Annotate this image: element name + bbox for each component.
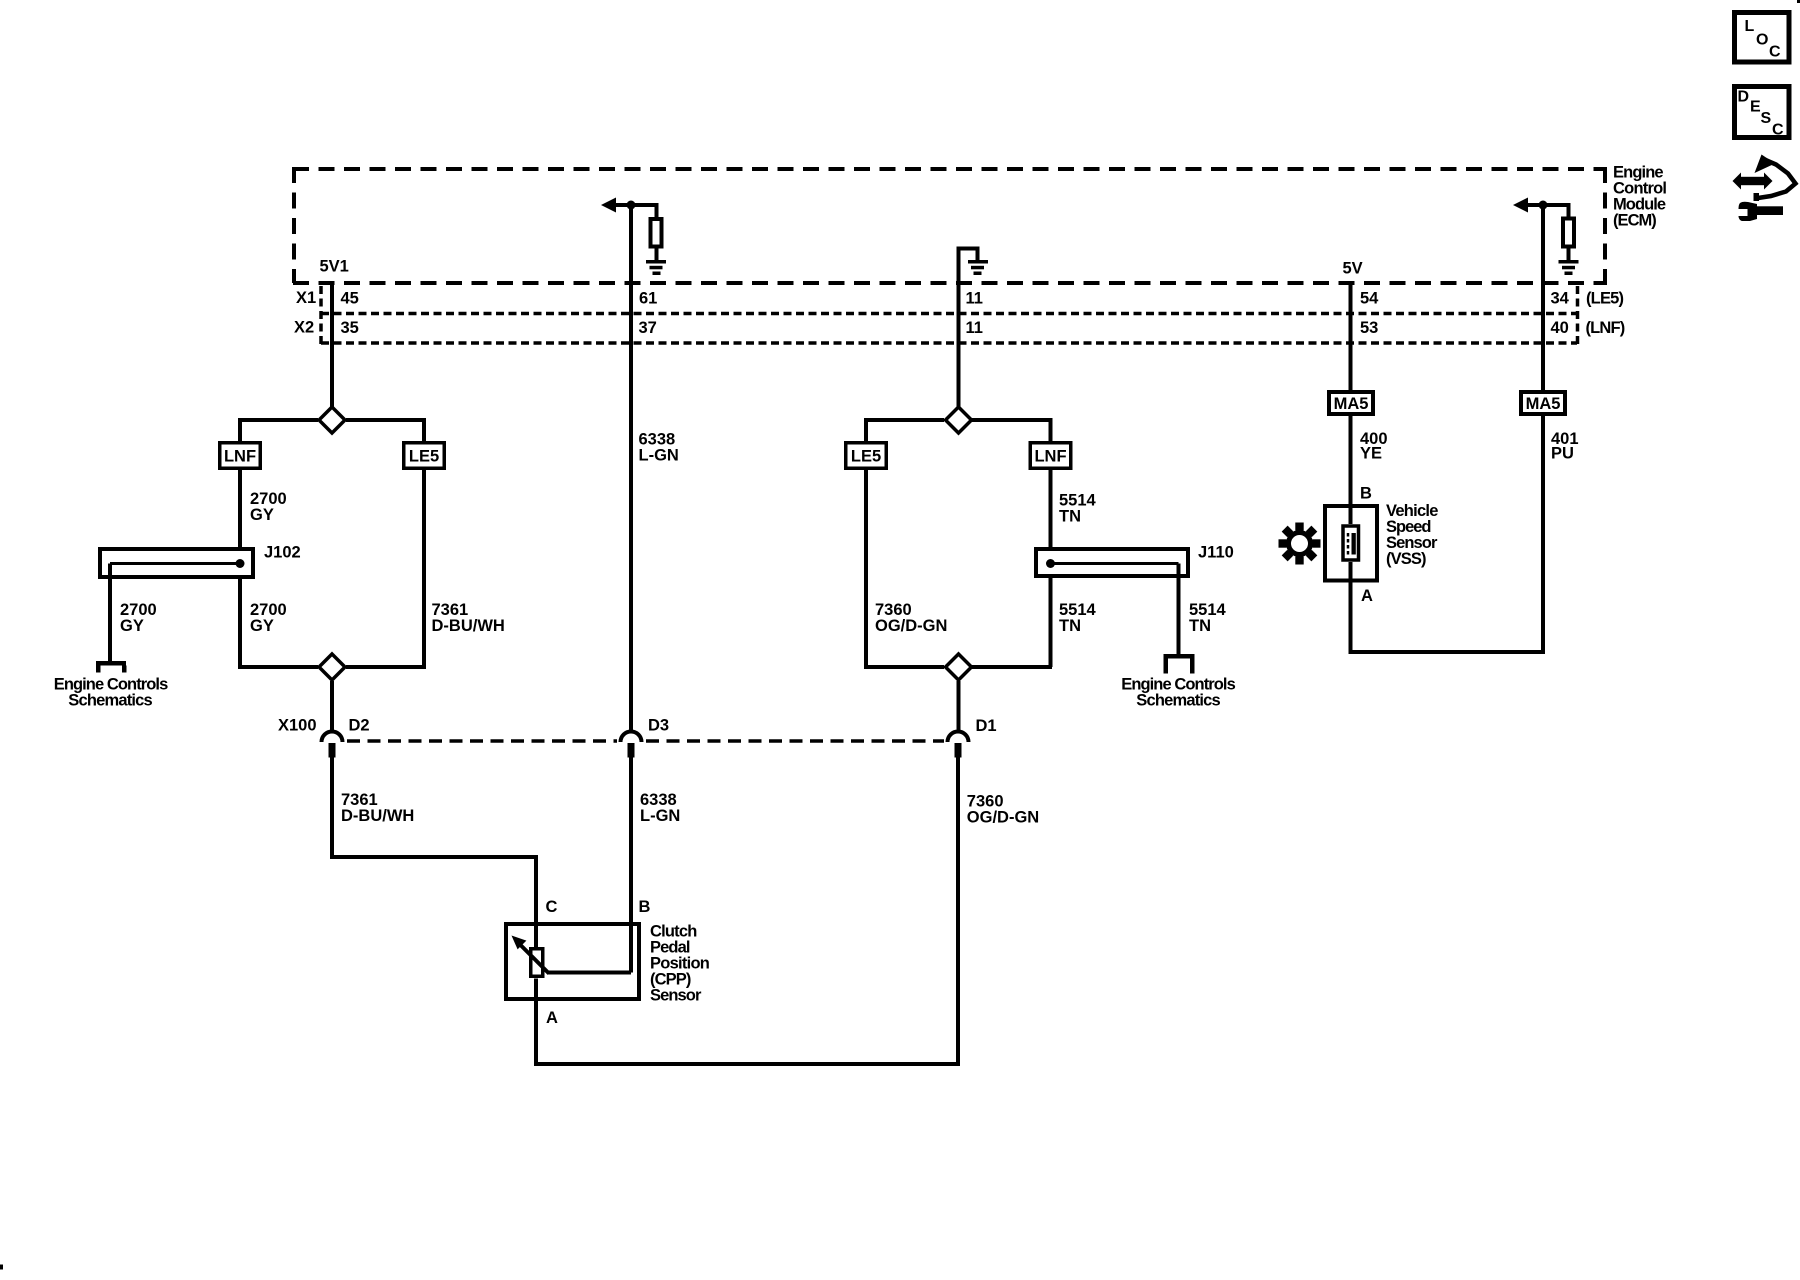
svg-text:61: 61 <box>639 290 657 308</box>
svg-text:X100: X100 <box>278 717 317 735</box>
svg-text:34: 34 <box>1551 290 1570 308</box>
svg-text:(LNF): (LNF) <box>1586 319 1626 337</box>
svg-text:C: C <box>1772 122 1784 139</box>
svg-text:Schematics: Schematics <box>68 692 152 710</box>
svg-text:MA5: MA5 <box>1526 395 1561 413</box>
svg-text:GY: GY <box>250 506 274 524</box>
svg-text:TN: TN <box>1059 508 1081 526</box>
svg-text:37: 37 <box>639 319 657 337</box>
svg-text:B: B <box>1360 485 1372 503</box>
svg-text:OG/D-GN: OG/D-GN <box>967 809 1039 827</box>
svg-text:J102: J102 <box>264 544 301 562</box>
svg-text:A: A <box>546 1009 558 1027</box>
svg-text:B: B <box>639 898 651 916</box>
svg-text:Sensor: Sensor <box>650 987 702 1005</box>
svg-text:LNF: LNF <box>1034 448 1066 466</box>
svg-text:LNF: LNF <box>224 448 256 466</box>
svg-text:PU: PU <box>1551 445 1574 463</box>
svg-text:D2: D2 <box>349 717 370 735</box>
svg-text:TN: TN <box>1059 617 1081 635</box>
svg-text:E: E <box>1750 99 1761 116</box>
svg-text:MA5: MA5 <box>1334 395 1369 413</box>
svg-text:45: 45 <box>341 290 359 308</box>
svg-text:X1: X1 <box>296 289 316 307</box>
svg-text:D1: D1 <box>976 717 997 735</box>
svg-text:YE: YE <box>1360 445 1382 463</box>
svg-text:OG/D-GN: OG/D-GN <box>875 617 947 635</box>
svg-text:(VSS): (VSS) <box>1386 550 1427 568</box>
svg-text:11: 11 <box>966 290 983 308</box>
svg-text:D-BU/WH: D-BU/WH <box>341 807 414 825</box>
svg-text:40: 40 <box>1551 319 1569 337</box>
svg-text:S: S <box>1761 110 1772 127</box>
svg-text:LE5: LE5 <box>409 448 439 466</box>
svg-text:53: 53 <box>1360 319 1378 337</box>
svg-text:O: O <box>1756 32 1768 49</box>
svg-text:Schematics: Schematics <box>1136 692 1220 710</box>
svg-text:C: C <box>1769 44 1781 61</box>
svg-text:D-BU/WH: D-BU/WH <box>432 617 505 635</box>
svg-text:D: D <box>1738 89 1750 106</box>
svg-text:J110: J110 <box>1198 544 1234 562</box>
svg-text:11: 11 <box>966 319 983 337</box>
svg-text:D3: D3 <box>648 717 669 735</box>
svg-text:5V: 5V <box>1343 260 1363 278</box>
svg-text:TN: TN <box>1189 617 1211 635</box>
svg-text:(ECM): (ECM) <box>1613 212 1657 230</box>
svg-text:L-GN: L-GN <box>639 447 679 465</box>
svg-text:A: A <box>1361 587 1373 605</box>
svg-text:X2: X2 <box>294 319 314 337</box>
svg-text:L-GN: L-GN <box>640 807 680 825</box>
svg-text:5V1: 5V1 <box>320 258 349 276</box>
svg-text:GY: GY <box>250 617 274 635</box>
svg-text:(LE5): (LE5) <box>1586 290 1624 308</box>
svg-text:LE5: LE5 <box>851 448 881 466</box>
svg-text:54: 54 <box>1360 290 1379 308</box>
svg-text:35: 35 <box>341 319 359 337</box>
svg-text:L: L <box>1745 18 1755 35</box>
svg-text:C: C <box>546 898 558 916</box>
svg-text:GY: GY <box>120 617 144 635</box>
